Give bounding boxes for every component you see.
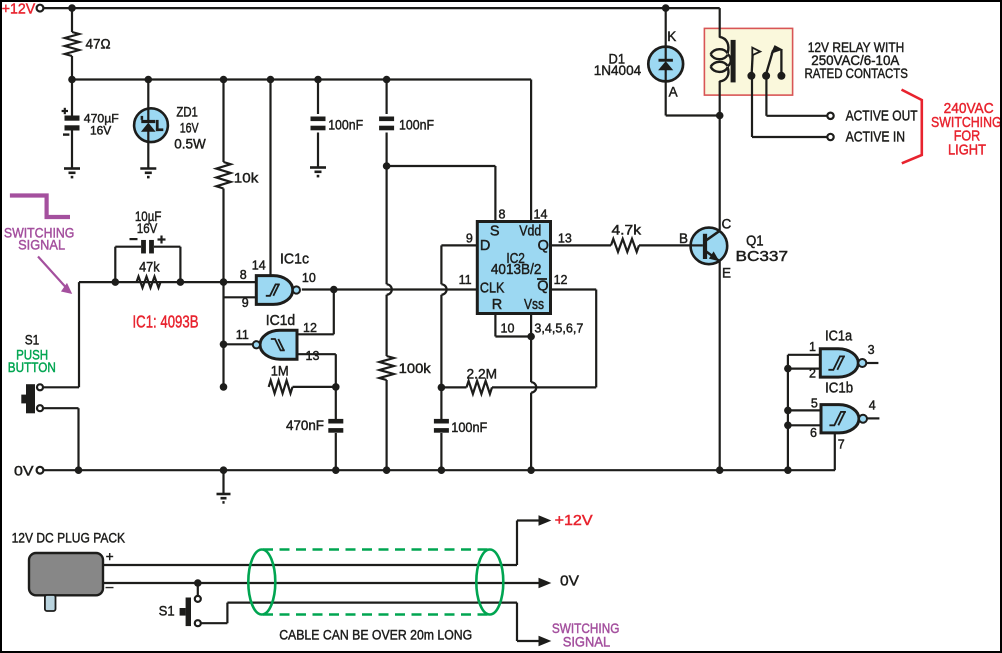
svg-text:K: K — [667, 29, 676, 44]
svg-text:SIGNAL: SIGNAL — [563, 635, 611, 650]
svg-text:ZD1: ZD1 — [176, 105, 198, 120]
svg-text:ACTIVE IN: ACTIVE IN — [846, 130, 906, 146]
svg-text:16V: 16V — [180, 121, 199, 136]
svg-text:+: + — [106, 549, 114, 564]
svg-text:470nF: 470nF — [286, 417, 324, 433]
svg-text:Q: Q — [538, 238, 549, 254]
svg-text:14: 14 — [252, 259, 266, 273]
svg-text:0.5W: 0.5W — [174, 137, 206, 152]
svg-text:E: E — [722, 265, 731, 280]
svg-text:3: 3 — [868, 343, 875, 357]
svg-text:1M: 1M — [271, 363, 289, 379]
svg-text:IC1: 4093B: IC1: 4093B — [133, 311, 199, 331]
svg-text:10: 10 — [302, 271, 316, 285]
svg-text:4: 4 — [869, 398, 876, 412]
svg-text:13: 13 — [306, 349, 320, 363]
svg-text:B: B — [679, 231, 688, 246]
svg-text:CABLE CAN BE OVER 20m LONG: CABLE CAN BE OVER 20m LONG — [279, 628, 472, 644]
svg-text:8: 8 — [240, 268, 247, 282]
svg-text:S: S — [490, 223, 500, 239]
svg-text:SIGNAL: SIGNAL — [18, 238, 65, 253]
svg-text:9: 9 — [242, 296, 249, 310]
svg-text:12: 12 — [303, 321, 317, 335]
svg-text:16V: 16V — [90, 124, 112, 138]
svg-text:11: 11 — [459, 273, 472, 287]
svg-text:–: – — [106, 579, 114, 594]
svg-text:12: 12 — [554, 273, 568, 287]
svg-text:Q: Q — [537, 279, 548, 295]
svg-text:S1: S1 — [159, 603, 175, 618]
svg-text:8: 8 — [499, 208, 506, 222]
svg-text:C: C — [722, 217, 732, 232]
svg-text:47Ω: 47Ω — [86, 36, 111, 52]
svg-text:2: 2 — [809, 366, 816, 380]
svg-text:5: 5 — [811, 397, 818, 411]
svg-text:0V: 0V — [560, 574, 579, 590]
svg-text:S1: S1 — [25, 332, 40, 347]
svg-text:9: 9 — [466, 232, 473, 246]
svg-text:Vss: Vss — [524, 297, 544, 313]
svg-text:6: 6 — [810, 426, 817, 440]
svg-text:16V: 16V — [137, 220, 158, 236]
svg-text:1N4004: 1N4004 — [594, 62, 642, 78]
svg-text:BC337: BC337 — [736, 248, 789, 265]
svg-text:3,4,5,6,7: 3,4,5,6,7 — [534, 321, 583, 336]
svg-text:IC1a: IC1a — [825, 329, 853, 345]
svg-text:+12V: +12V — [2, 0, 36, 17]
svg-text:ACTIVE OUT: ACTIVE OUT — [846, 109, 918, 125]
svg-text:R: R — [492, 297, 502, 313]
svg-text:100k: 100k — [399, 360, 432, 376]
svg-text:2.2M: 2.2M — [467, 366, 498, 382]
svg-text:4.7k: 4.7k — [612, 222, 643, 238]
svg-text:RATED CONTACTS: RATED CONTACTS — [804, 66, 908, 81]
svg-text:100nF: 100nF — [451, 419, 487, 435]
svg-text:1: 1 — [809, 340, 816, 354]
svg-text:13: 13 — [558, 232, 572, 246]
svg-text:IC1c: IC1c — [280, 252, 309, 268]
svg-text:100nF: 100nF — [328, 116, 363, 132]
svg-text:IC1d: IC1d — [266, 313, 296, 329]
svg-text:4013B/2: 4013B/2 — [491, 262, 542, 278]
svg-text:7: 7 — [838, 437, 845, 451]
svg-text:47k: 47k — [139, 258, 160, 274]
svg-text:14: 14 — [534, 208, 548, 222]
svg-text:10k: 10k — [234, 169, 260, 185]
svg-text:A: A — [669, 85, 678, 100]
svg-text:0V: 0V — [14, 464, 34, 479]
svg-text:LIGHT: LIGHT — [948, 141, 986, 158]
svg-text:CLK: CLK — [480, 280, 505, 296]
svg-text:Q1: Q1 — [746, 233, 764, 250]
svg-text:11: 11 — [236, 328, 249, 342]
svg-text:BUTTON: BUTTON — [8, 360, 56, 375]
svg-text:Vdd: Vdd — [519, 223, 541, 239]
svg-text:12V DC PLUG PACK: 12V DC PLUG PACK — [12, 530, 126, 546]
svg-text:+12V: +12V — [555, 513, 593, 529]
svg-text:IC1b: IC1b — [825, 381, 853, 397]
svg-text:10: 10 — [501, 322, 515, 336]
svg-text:D: D — [480, 238, 490, 254]
svg-text:100nF: 100nF — [399, 116, 434, 132]
